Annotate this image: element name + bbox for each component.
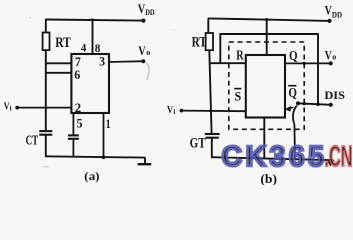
wire R input from node (b) [209,62,246,64]
wire pin5 lead (a) [72,113,74,135]
capacitor C5 top plate (a) [68,134,79,136]
overbar of S (b) [234,88,241,90]
svg-text:V: V [138,43,146,58]
wire pin7 (a) [45,62,72,64]
node VDD terminal dot (a) [141,19,145,23]
wire node vertical below RT to GT (b) [209,50,211,134]
svg-text:CT: CT [26,134,39,149]
capacitor CT bottom plate (a) [39,134,52,136]
switch arm arc (b) [293,106,297,124]
flip-flop box U1 (b) [246,55,285,118]
svg-text:CK365: CK365 [222,141,325,173]
node junction rail flip-flop supply (b) [265,18,268,21]
svg-text:DD: DD [145,7,154,17]
wire pin1 lead to ground rail (a) [103,113,105,157]
svg-text:V: V [325,3,332,17]
wire flip-flop ground lead (b) [263,118,265,159]
node junction rail pin8 (a) [91,18,94,21]
wire ground rail (a) [45,156,145,157]
svg-text:GT: GT [190,136,206,152]
capacitor GT top plate (b) [205,133,220,135]
switch control arrow from Q-bar (b) [285,106,294,112]
wire node vertical below resistor down to CT (a) [45,50,47,131]
svg-text:5: 5 [77,116,83,131]
svg-text:RT: RT [192,34,207,50]
wire VDD top rail (b) [208,18,330,21]
node Vo terminal dot (b) [329,61,333,65]
node pin dot on dashed edge Vo (b) [303,62,306,65]
capacitor GT bottom plate (b) [206,137,219,139]
svg-text:RT: RT [55,35,71,51]
capacitor C5 bottom plate (a) [68,138,79,140]
svg-text:4: 4 [81,41,87,55]
node VDD terminal dot (b) [327,19,331,23]
wire Vi to pin2 (a) [17,107,72,109]
wire GT bottom to rail (b) [211,138,213,158]
wire rail corner to resistor (b) [207,18,209,33]
node junction Vi wire with RC node (a) [44,106,47,109]
ground symbol (a) [138,158,152,165]
node Vo terminal dot (a) [141,59,145,63]
wire pin6 (a) [45,72,72,74]
svg-text:R: R [236,48,244,63]
wire node loop to DIS: left riser, top run, right drop (b) [220,34,318,104]
svg-text:(a): (a) [84,169,99,183]
wire Q to Vo (b) [285,62,331,64]
svg-text:DD: DD [332,10,342,20]
svg-text:Q: Q [288,85,297,100]
wire ground rail (b) [211,157,334,160]
overbar of Q-bar (b) [288,85,296,87]
node DIS terminal dot (b) [329,103,333,107]
svg-text:6: 6 [74,67,80,82]
IC 555 box U1 (a) [71,54,109,113]
resistor RT (a) [43,33,50,51]
svg-text:o: o [146,48,150,57]
wire CT bottom to rail (a) [45,135,47,157]
node junction Vi wire with RC node (b) [209,110,212,113]
svg-text:1: 1 [106,116,111,131]
node discharge switch pivot dot (b) [296,101,300,105]
wire Vi to S input (b) [182,110,246,113]
node Vi terminal dot (a) [15,106,19,110]
svg-text:i: i [173,108,175,116]
node pin dot on dashed edge DIS (b) [303,102,306,105]
wire left vertical from rail to resistor (a) [45,19,47,33]
wire switch to ground rail (b) [293,124,296,159]
wire pin5 cap to ground rail (a) [72,139,74,157]
ground symbol triangle (b) [327,160,335,166]
svg-text:DIS: DIS [324,88,345,102]
node junction pin1 ground rail (a) [102,155,106,159]
wire VDD top rail (a) [46,20,144,21]
node junction loop DIS (b) [316,102,320,106]
svg-text:V: V [325,48,332,62]
svg-text:3: 3 [99,53,105,68]
svg-text:Q: Q [289,48,298,63]
svg-text:o: o [332,53,336,62]
svg-text:S: S [235,89,242,104]
svg-text:2: 2 [75,100,81,115]
wire DIS (b) [298,103,331,105]
resistor RT (b) [206,33,213,50]
watermark CK365.CN [222,141,353,173]
wire VDD to flip-flop top (b) [266,20,268,55]
dashed package box (b) [229,42,304,129]
wire pin3 to Vo (a) [109,60,143,63]
capacitor CT top plate (a) [39,130,52,132]
svg-text:.CN: .CN [325,141,353,173]
wire pins 4,8 to VDD rail (a) [92,20,94,54]
svg-text:i: i [10,104,12,112]
node Vi terminal dot (b) [180,109,184,113]
